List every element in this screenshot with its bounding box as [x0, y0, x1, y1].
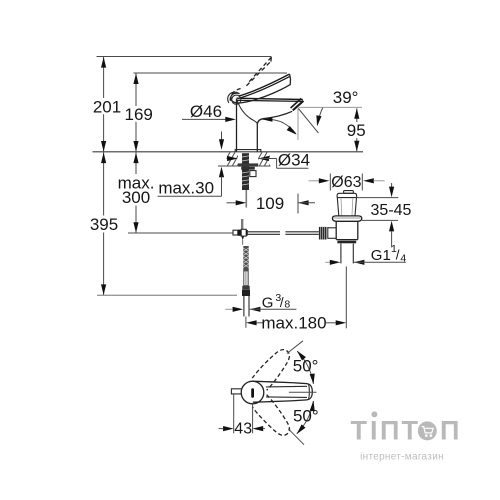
pull rod upper segment to coupler: [241, 219, 243, 229]
horizontal pop-up rod segment 1: [248, 232, 280, 235]
water stream vertical line: [297, 108, 299, 140]
horizontal pop-up rod segment 2: [285, 232, 318, 235]
faucet body cylinder right edge: [256, 124, 258, 152]
ref line pop-up rod level (max.300): [128, 232, 233, 234]
waste body bottom edge: [336, 239, 358, 241]
svg-text:50°: 50°: [293, 407, 319, 426]
svg-text:І: І: [370, 416, 378, 446]
raised handle dashed upper edge: [248, 57, 272, 83]
watermark cart icon: [422, 427, 434, 433]
upper 50deg arc: [293, 349, 319, 385]
lever pivot nose outer arc: [228, 92, 239, 103]
waste side port: [328, 227, 336, 239]
threaded stud: [242, 153, 249, 190]
water stream 39deg diagonal: [298, 109, 318, 134]
washer under deck: [238, 163, 258, 166]
lever pivot nose circle: [232, 95, 241, 104]
svg-text:50°: 50°: [293, 356, 319, 375]
hose G3/8 fitting nut: [242, 286, 249, 290]
hose smooth tube: [244, 271, 248, 286]
braided supply hose: [243, 246, 248, 271]
waste neck right: [355, 198, 357, 216]
svg-text:П: П: [440, 416, 459, 446]
horseshoe washer: [241, 167, 255, 170]
svg-text:35-45: 35-45: [371, 202, 412, 219]
svg-text:95: 95: [347, 121, 366, 140]
faucet body cylinder left edge: [236, 99, 238, 152]
svg-text:Т: Т: [402, 416, 419, 446]
plug cap top tier: [344, 191, 354, 194]
waste neck left: [337, 198, 339, 216]
waste flange inner line: [334, 217, 361, 219]
svg-text:G1: G1: [371, 247, 391, 264]
svg-text:max.180: max.180: [261, 313, 326, 332]
flange top surface line: [337, 197, 357, 199]
counter deck bottom line right: [258, 165, 270, 167]
horizontal axis line right of lever: [289, 391, 317, 393]
svg-text:395: 395: [90, 215, 118, 234]
109 right extension line (spout axis below deck): [297, 194, 299, 214]
waste knurled knob: [319, 227, 327, 240]
svg-text:max.30: max.30: [158, 179, 214, 198]
svg-text:/: /: [396, 247, 400, 262]
waste neck inner lines: [340, 199, 343, 216]
top-view lever inner detail lines: [266, 385, 307, 388]
svg-text:Ø34: Ø34: [278, 151, 310, 170]
top-view lever end cap inner line: [308, 384, 309, 400]
top-view pivot circle: [241, 381, 264, 404]
spout outlet face inner bar: [291, 98, 302, 108]
spout outlet face outer bar: [293, 101, 304, 111]
svg-text:інтернет-магазин: інтернет-магазин: [360, 452, 444, 463]
deck hatching right: [254, 152, 277, 166]
svg-text:П: П: [380, 416, 399, 446]
top-view left tab: [231, 389, 241, 394]
spout underside curve: [257, 111, 292, 123]
G3/8 thread tube: [244, 296, 249, 317]
svg-text:Ø63: Ø63: [331, 174, 361, 191]
Ø46 right arrow merging into swivel arc: [262, 117, 298, 137]
waste body left: [335, 221, 337, 239]
svg-text:39°: 39°: [333, 88, 359, 107]
waste tailpipe right: [352, 244, 354, 264]
svg-text:201: 201: [93, 97, 121, 116]
lower 50deg arc: [293, 400, 319, 436]
hose centre extension line: [245, 317, 247, 328]
pull rod below stud: [245, 190, 247, 208]
counter deck top line: [93, 151, 364, 153]
spout inner sweep curve: [237, 100, 257, 124]
waste flange disk: [332, 216, 361, 221]
top-view slot mark: [251, 388, 254, 398]
dashed lever rotated down 50deg: [252, 395, 295, 441]
svg-text:4: 4: [400, 252, 406, 264]
waste body right: [357, 221, 359, 239]
top-view lever outline: [253, 381, 312, 402]
faucet base plate: [235, 150, 261, 152]
raised handle dashed nose arc: [230, 89, 240, 103]
svg-text:Ø46: Ø46: [190, 102, 222, 121]
waste tailpipe left: [340, 244, 342, 264]
dashed lever rotated up 50deg: [252, 345, 295, 391]
svg-text:300: 300: [122, 188, 150, 207]
spout top edge thick (double line): [237, 98, 303, 99]
upper 50deg extension line: [287, 341, 303, 354]
raised handle dashed tip: [270, 57, 272, 61]
lever handle top edge (closed, double line): [239, 74, 290, 96]
ref line hose end (395): [97, 294, 237, 296]
svg-text:Т: Т: [351, 416, 368, 446]
lower 50deg extension line: [288, 429, 304, 445]
waste centre extension line down to max180: [345, 266, 347, 328]
svg-text:/: /: [280, 295, 284, 310]
svg-text:8: 8: [284, 299, 290, 311]
ref line top 169: [134, 72, 288, 74]
svg-text:169: 169: [125, 105, 153, 124]
deck hatching left: [222, 152, 245, 166]
plug cap lower tier: [337, 193, 357, 197]
ref line top 201: [97, 56, 272, 58]
lever handle outline: [231, 74, 291, 103]
counter deck bottom line left: [218, 165, 238, 167]
pull-rod guide fitting: [250, 171, 256, 177]
waste bottom collar: [337, 241, 356, 244]
pop-up rod coupler: [233, 229, 248, 245]
raised handle dashed lower edge: [245, 62, 270, 87]
svg-text:43: 43: [234, 420, 252, 437]
svg-text:109: 109: [256, 194, 284, 213]
svg-text:G: G: [262, 294, 274, 311]
